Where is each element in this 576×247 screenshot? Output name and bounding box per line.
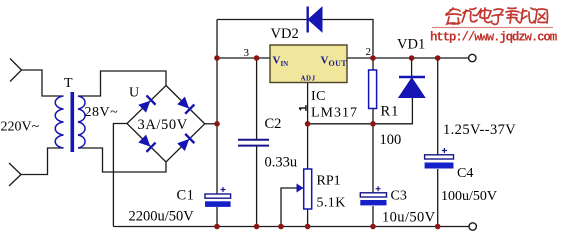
wire: R1 top lead (372, 58, 374, 70)
bridge rectifier U diode bottom-left (138, 134, 156, 152)
watermark underline (432, 27, 553, 29)
svg-text:C3: C3 (391, 189, 407, 204)
bridge rectifier U diode top-left (138, 95, 156, 113)
svg-text:10u/50V: 10u/50V (382, 210, 436, 226)
wire: ADJ horizontal to VD1 anode (308, 98, 413, 124)
wire: top rail with VD2 (217, 19, 307, 21)
wire: main + vertical rail x=217 (216, 20, 218, 195)
node ground C3 dot (370, 224, 376, 230)
transformer T primary winding (55, 96, 63, 148)
svg-text:3A/50V: 3A/50V (138, 117, 188, 133)
node ADJ dot (305, 121, 311, 127)
node 2 dot (370, 55, 376, 61)
svg-text:2: 2 (366, 46, 372, 58)
svg-text:ADJ: ADJ (301, 75, 316, 83)
svg-text:C1: C1 (177, 187, 195, 203)
wire: R1 bottom lead to C3 (372, 109, 374, 193)
capacitor C1 (205, 187, 231, 207)
node bridge right vertex dot (214, 121, 220, 127)
node C2 tap dot (254, 55, 260, 61)
wire: secondary top to bridge top (78, 71, 166, 96)
svg-text:VD1: VD1 (397, 37, 425, 53)
node junction dots (214, 55, 440, 229)
node ground C2 dot (254, 224, 260, 230)
svg-text:3: 3 (244, 47, 250, 59)
svg-text:RP1: RP1 (317, 173, 341, 188)
svg-text:C4: C4 (457, 166, 473, 181)
wire (322, 20, 373, 59)
svg-text:IC: IC (311, 89, 326, 104)
wire: ADJ pin down (307, 83, 309, 170)
wire: bridge diamond outline (127, 86, 205, 163)
transformer T core (71, 92, 75, 152)
capacitor C3 (360, 186, 386, 205)
svg-text:100: 100 (380, 132, 402, 148)
svg-text:U: U (129, 86, 139, 101)
potentiometer RP1 body (304, 169, 312, 209)
wire: bridge left vertex down to ground rail (113, 124, 127, 227)
wire: secondary bottom to bridge bottom (78, 148, 166, 172)
node VD1 cathode dot (409, 55, 415, 61)
bridge rectifier U diode top-right (176, 96, 194, 114)
wire (372, 206, 374, 227)
wire top rail (9, 20, 469, 227)
svg-text:VD2: VD2 (271, 26, 299, 42)
svg-text:5.1K: 5.1K (317, 196, 346, 211)
node ground wiper dot (278, 224, 284, 230)
wire: C2 branch (256, 58, 258, 139)
IC U1 LM317 body (270, 45, 347, 83)
wire: bridge right vertex to + rail (205, 123, 217, 125)
output terminal + (469, 54, 476, 61)
wire (21, 148, 64, 175)
wire (256, 147, 258, 227)
capacitor C2 (238, 140, 269, 146)
watermark chinese calligraphy (446, 8, 548, 24)
wire: RP1 bottom lead (307, 209, 309, 227)
svg-text:1.25V--37V: 1.25V--37V (443, 122, 516, 138)
svg-text:C2: C2 (265, 116, 282, 132)
diode VD1 (399, 77, 425, 98)
node ground C1 dot (214, 224, 220, 230)
wire: Vin wire node3 (217, 57, 270, 59)
svg-text:100u/50V: 100u/50V (441, 189, 497, 204)
wire: C1 bottom lead (216, 207, 218, 227)
output terminal - (469, 223, 476, 230)
wire: C4 branch (437, 58, 439, 155)
wire: left terminal top arm (10, 59, 22, 82)
resistor R1 (369, 70, 377, 109)
node C4 tap dot (435, 55, 441, 61)
svg-text:T: T (64, 76, 73, 91)
wire (437, 169, 439, 227)
node ground RP1 dot (305, 224, 311, 230)
potentiometer RP1 wiper arrow (297, 184, 304, 193)
svg-text:LM317: LM317 (311, 106, 358, 121)
wire: ground rail (113, 226, 468, 228)
wire: VD1 cathode lead (411, 58, 413, 76)
svg-text:28V~: 28V~ (85, 105, 119, 120)
label pin 1 (rotated digit) (299, 105, 306, 111)
capacitor C4 (425, 148, 454, 169)
wire: Vout wire node2 (347, 57, 468, 59)
svg-text:http://www.jqdzw.com: http://www.jqdzw.com (430, 31, 558, 45)
svg-text:0.33u: 0.33u (265, 155, 298, 171)
wire: terminal bottom to primary bottom (9, 163, 21, 186)
wire: RP1 wiper to ground (281, 188, 304, 227)
svg-text:220V~: 220V~ (1, 120, 40, 135)
diode VD2 (308, 7, 322, 33)
wire: terminal to primary top (22, 70, 64, 96)
svg-text:R1: R1 (381, 103, 400, 119)
svg-text:2200u/50V: 2200u/50V (129, 209, 195, 225)
transformer T secondary winding (78, 96, 85, 148)
node R1 bottom dot (370, 121, 376, 127)
bridge rectifier U diode bottom-right (176, 134, 194, 152)
node ground C4 dot (435, 224, 441, 230)
node 3 rail dot (214, 55, 220, 61)
